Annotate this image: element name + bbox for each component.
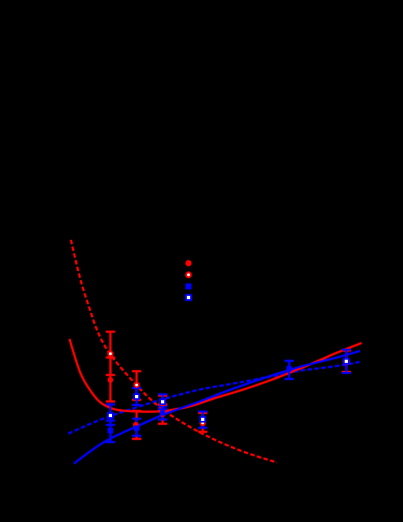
data point 6: open blue square <box>344 359 349 364</box>
data point 4: open red circle <box>201 421 205 425</box>
error bar: point 5 filled blue <box>285 361 294 379</box>
legend marker: open blue square <box>186 295 191 300</box>
error bar: point 3 filled red <box>158 405 167 424</box>
error bar: point 3 filled blue <box>158 407 167 420</box>
error bar: point 1 filled red <box>106 358 115 402</box>
fit curve: blue dashed (fit to open blue squares) <box>69 362 360 434</box>
error bar: point 2 filled blue <box>132 419 141 436</box>
data point 2: filled red circle <box>133 422 138 427</box>
error bar: point 6 open blue <box>342 350 351 373</box>
error bar: point 3 open blue <box>158 394 167 409</box>
error bar: point 6 open red <box>342 351 351 373</box>
error bar: point 2 filled red <box>132 411 141 439</box>
data point 5: filled blue square <box>287 366 292 371</box>
data point 2: filled blue square <box>134 426 139 431</box>
data point 4: open blue square <box>200 417 205 422</box>
error bar: point 2 open red <box>132 371 141 400</box>
legend marker: filled red circle <box>186 260 192 266</box>
error bar: point 1 filled blue <box>106 421 115 443</box>
data point 1: open red circle <box>108 352 112 356</box>
error bar: point 1 open blue <box>106 404 115 425</box>
data point 1: filled red circle <box>108 377 113 382</box>
data point 3: filled red circle <box>160 412 165 417</box>
error bar: point 4 open blue <box>198 412 207 428</box>
legend marker: filled blue square <box>186 284 192 290</box>
error bar: point 2 open blue <box>132 388 141 405</box>
error bar: point 3 open red <box>158 396 167 410</box>
fit curve: red dashed (fit to open red circles) <box>71 240 277 463</box>
fit curve: blue solid (fit to filled blue squares) <box>74 351 360 464</box>
data point 2: open red circle <box>134 383 138 387</box>
data point 2: open blue square <box>134 394 139 399</box>
data point 3: filled blue square <box>160 410 165 415</box>
error bar: point 4 open red <box>198 413 207 432</box>
legend marker: open red circle <box>186 273 191 278</box>
data point 6: open red circle (behind blue square) <box>344 359 349 364</box>
data point 3: open red circle <box>160 401 165 406</box>
data point 3: open blue square <box>160 399 165 404</box>
data point 1: filled blue square <box>108 428 113 433</box>
data point 1: open blue square <box>108 413 113 418</box>
error bar: point 1 open red <box>106 332 115 375</box>
fit curve: red solid (fit to filled red circles) <box>70 339 362 412</box>
